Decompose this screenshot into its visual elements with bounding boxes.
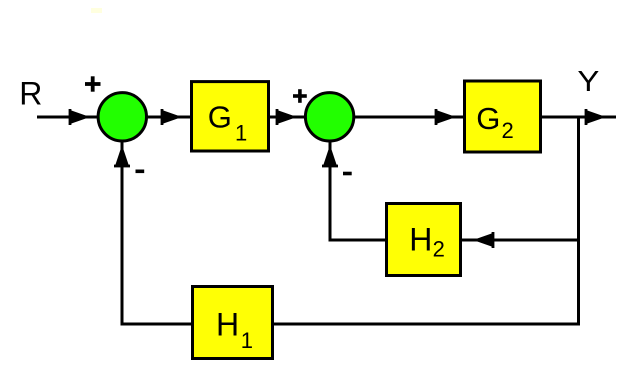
arrowhead output (585, 109, 606, 125)
arrowhead into H2 (473, 232, 494, 248)
block G2 (465, 81, 541, 152)
minus sign at sum2 (343, 172, 352, 176)
wire sum1 to G1 (146, 116, 191, 119)
arrowhead up into sum2 (322, 145, 338, 167)
label G1 (208, 100, 247, 146)
wire H2 left output (330, 239, 386, 242)
svg-text:H: H (216, 306, 239, 342)
arrowhead into sum2 (276, 109, 297, 125)
block H1 (193, 287, 273, 359)
svg-text:R: R (19, 75, 42, 111)
artifact smudge (91, 8, 102, 13)
label G2 (476, 101, 514, 143)
svg-text:1: 1 (235, 120, 247, 145)
svg-text:G: G (476, 101, 500, 136)
svg-text:H: H (409, 221, 432, 257)
label H1 (216, 306, 253, 353)
svg-text:G: G (208, 100, 232, 135)
svg-text:1: 1 (241, 328, 253, 353)
minus sign at sum1 (136, 170, 145, 174)
wire vertical up to sum1 (121, 142, 124, 326)
wire G1 to sum2 (270, 116, 305, 119)
arrowhead into sum1 (69, 109, 90, 125)
wire input R to sum1 (37, 116, 98, 119)
wire sum2 to G2 (354, 116, 463, 119)
wire feedback vertical from output (577, 116, 580, 326)
plus sign at sum2 (293, 89, 307, 103)
arrowhead up into sum1 (114, 145, 130, 167)
wire bottom feedback to H1 (274, 323, 579, 326)
summing junction sum1 (98, 93, 146, 141)
plus sign at sum1 (85, 76, 101, 91)
svg-text:Y: Y (577, 66, 599, 98)
svg-text:2: 2 (433, 236, 445, 261)
svg-text:2: 2 (502, 118, 514, 143)
wire vertical up to sum2 (329, 142, 332, 242)
block G1 (192, 82, 269, 151)
arrowhead into G1 (161, 109, 182, 125)
block H2 (387, 204, 461, 276)
label H2 (409, 221, 445, 261)
wire into H2 right (462, 239, 579, 242)
wire G2 to output Y (542, 116, 616, 119)
wire H1 left output (122, 323, 192, 326)
summing junction sum2 (305, 93, 353, 141)
arrowhead into G2 (435, 109, 456, 125)
